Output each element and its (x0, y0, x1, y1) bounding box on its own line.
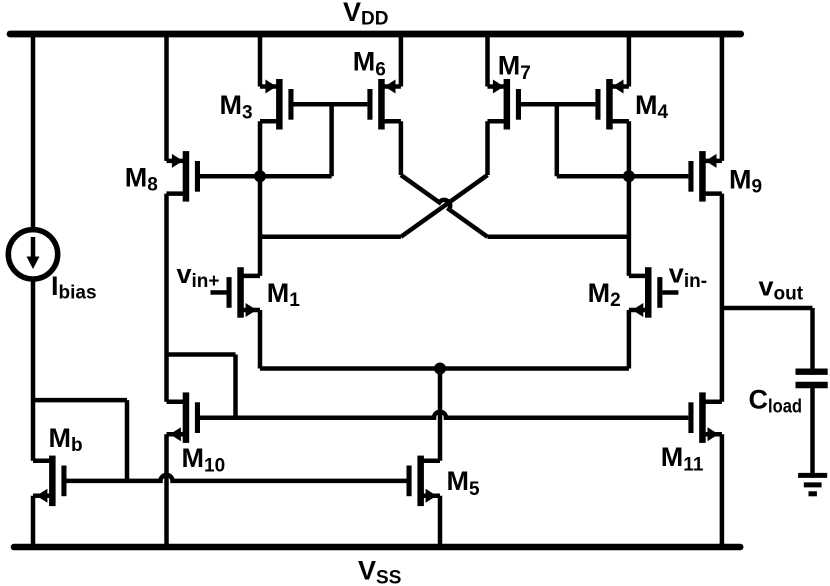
svg-text:M2: M2 (588, 278, 621, 311)
wire M2 source down (627, 310, 632, 369)
wire M5 source to VSS (438, 496, 443, 547)
tail junction dot (434, 363, 446, 375)
transistor M6 (367, 79, 401, 130)
transistor M2 (629, 267, 662, 318)
current source Ibias (8, 230, 57, 279)
wire right node to M9 gate (557, 174, 689, 179)
wire VDD to M3 source (258, 34, 263, 87)
wire VDD to M4 source (627, 34, 632, 87)
wire M7 drain down (485, 121, 490, 175)
transistor M5 (407, 456, 441, 507)
transistor M7 (488, 79, 522, 130)
tail wire (260, 366, 629, 371)
VSS rail (14, 544, 740, 551)
svg-text:vout: vout (759, 272, 804, 305)
wire M4 drain down to M2 drain (627, 121, 632, 276)
wire M6 cross diagonal with hop (401, 175, 488, 237)
svg-text:M7: M7 (498, 51, 531, 84)
wire M3 gate to M6 gate (294, 102, 368, 107)
wire M8 gate to node A (200, 174, 332, 179)
wire M3 drain down to M1 drain (258, 121, 263, 276)
wire M1 source down (258, 310, 263, 369)
svg-text:Cload: Cload (749, 384, 803, 417)
wire Ibias to Mb drain (31, 279, 36, 461)
wire VDD to M7 source (485, 34, 490, 87)
wire Mb gate to M5 gate with hop (67, 475, 407, 481)
VDD rail (10, 31, 741, 38)
wire M11 source to VSS (720, 434, 725, 547)
wire Mb gate feedback horizontal (33, 398, 127, 403)
transistor M1 (227, 267, 261, 318)
svg-text:M11: M11 (661, 442, 704, 476)
wire gate drop left (329, 104, 334, 176)
ground (798, 475, 827, 493)
wire M7 gate to M4 gate (521, 102, 595, 107)
wire VDD to M6 source (399, 34, 404, 87)
svg-text:Ibias: Ibias (51, 271, 97, 303)
svg-text:M8: M8 (125, 162, 158, 195)
svg-text:M10: M10 (182, 443, 226, 477)
wire cross to left node column (260, 235, 401, 240)
wire VDD to Ibias (31, 34, 36, 230)
wire M10 gate diode vertical (233, 355, 238, 418)
transistor M8 (167, 151, 201, 202)
svg-text:M6: M6 (353, 46, 386, 80)
svg-text:Mb: Mb (49, 423, 83, 456)
wire cross to right node column (488, 235, 629, 240)
vout wire (722, 306, 813, 311)
svg-text:M1: M1 (267, 278, 301, 311)
transistor Mb (33, 456, 67, 507)
wire M10 gate diode horizontal (167, 352, 236, 357)
svg-text:vin-: vin- (669, 259, 707, 292)
node A junction dot (254, 170, 266, 182)
svg-text:vin+: vin+ (177, 259, 220, 292)
svg-text:M4: M4 (635, 90, 669, 123)
wire M7 cross diagonal (401, 175, 488, 237)
wire Cload to ground (810, 388, 815, 475)
svg-text:VDD: VDD (343, 0, 388, 29)
wire M8 drain to M10 drain (164, 194, 169, 402)
M1 gate stub vin+ (211, 290, 227, 295)
node B junction dot (623, 170, 635, 182)
wire VDD to M9 source (720, 34, 725, 161)
transistor M11 (688, 392, 722, 443)
svg-text:M9: M9 (729, 165, 762, 198)
M2 gate stub vin- (662, 290, 678, 295)
wire M10 source to VSS (164, 434, 169, 547)
wire VDD to M8 source (164, 34, 169, 161)
capacitor Cload (796, 372, 828, 385)
svg-text:M5: M5 (447, 466, 481, 500)
transistor M9 (688, 151, 722, 202)
svg-text:M3: M3 (220, 90, 253, 124)
transistor M3 (260, 79, 294, 130)
wire Mb gate feedback vertical (125, 400, 130, 481)
transistor M4 (595, 79, 629, 130)
wire M9 drain to M11 drain (vout column) (720, 194, 725, 402)
wire M6 drain down (399, 121, 404, 175)
wire M10 gate to M11 gate with hop (200, 412, 688, 418)
transistor M10 (167, 392, 201, 443)
wire Mb source to VSS (31, 496, 36, 547)
svg-text:VSS: VSS (358, 556, 401, 586)
wire gate drop right (555, 104, 560, 176)
wire tail to M5 drain (438, 369, 443, 461)
wire vout to Cload (810, 308, 815, 369)
